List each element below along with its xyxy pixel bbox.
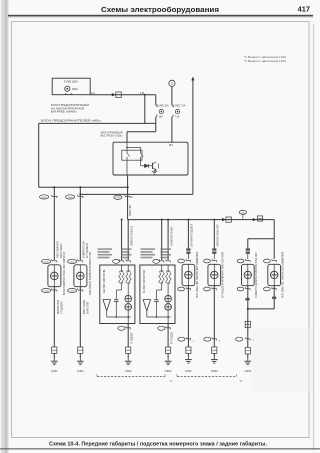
connector rect licence pair upper <box>245 321 250 327</box>
wire off-page feed right <box>192 79 194 195</box>
svg-text:НОМЕРНОГО ЗНА: НОМЕРНОГО ЗНА <box>82 241 85 258</box>
internal ground bus G553 <box>147 316 171 318</box>
svg-text:БЛОК ПРЕДОХРАНИТЕЛЕЙ «МВ»: БЛОК ПРЕДОХРАНИТЕЛЕЙ «МВ» <box>41 119 102 123</box>
connector dash B1 output <box>125 195 130 197</box>
connector on ground wire G401 <box>52 347 57 353</box>
svg-text:*2: *2 <box>218 341 221 343</box>
svg-text:Л/ЧЕР ГАБАРИТ ПОДСВЕТКА НОМЕРН: Л/ЧЕР ГАБАРИТ ПОДСВЕТКА НОМЕРНОГО ЗНА <box>89 252 92 295</box>
inline connector blob G501 <box>186 248 190 250</box>
svg-text:ЗНАКА СВЕТ: ЗНАКА СВЕТ <box>129 204 132 216</box>
inline connector blobs licence columns <box>245 298 249 300</box>
svg-text:Схема 10-4. Передние габариты: Схема 10-4. Передние габариты / подсветк… <box>49 440 268 447</box>
svg-text:B1: B1 <box>169 143 173 147</box>
wire fuse 7.5A output <box>171 117 173 142</box>
lamp G503 <box>241 264 254 285</box>
svg-text:FUSE 7.5A: FUSE 7.5A <box>173 104 185 107</box>
connector C563 oval <box>114 195 122 199</box>
node junction front-right <box>79 186 81 188</box>
wire to ground G502 <box>213 286 215 347</box>
connector on ground wire G402 <box>78 347 83 353</box>
connector oval lower licence right <box>264 287 271 291</box>
wire to LED lamps G553 <box>167 283 169 295</box>
wire to LED lamps G552 <box>127 283 129 295</box>
header rule <box>8 15 313 17</box>
svg-text:РИТ ПОДСВЕ: РИТ ПОДСВЕ <box>171 332 173 344</box>
lamp G502 <box>208 264 221 285</box>
svg-text:БАРИТ ПОДСВЕ: БАРИТ ПОДСВЕ <box>83 300 86 314</box>
svg-text:Т ПОДСВЕТК: Т ПОДСВЕТК <box>62 301 64 314</box>
svg-text:G553: G553 <box>165 369 172 373</box>
wire MB row horizontal <box>39 122 156 124</box>
variant bracket 2 <box>177 376 237 378</box>
page bleed-through shadow <box>251 329 313 391</box>
diode D1 <box>145 164 149 168</box>
svg-text:МЕРНОГО ЗНАК: МЕРНОГО ЗНАК <box>57 299 60 314</box>
wire drop lamp G501 <box>187 220 189 249</box>
wire drop front lamp G402 <box>79 187 81 260</box>
wire fuse 10A output <box>155 117 157 132</box>
svg-text:7: 7 <box>83 197 85 199</box>
fuse 10A number circle <box>159 109 163 113</box>
svg-text:НОМЕРНОГО ЗНАКА С: НОМЕРНОГО ЗНАКА С <box>170 226 173 246</box>
wire unit output G553 <box>167 317 169 324</box>
svg-text:АКА СВЕТ ЛАМП КРС/БЕ: АКА СВЕТ ЛАМП КРС/БЕ <box>103 269 106 293</box>
LED lamp upper G552 <box>125 295 132 302</box>
svg-text:ИТ ПОДСВЕТ: ИТ ПОДСВЕТ <box>131 332 133 344</box>
svg-text:7: 7 <box>57 197 59 199</box>
connector C405 oval upper <box>68 259 77 263</box>
connector ovals rear LED unit G552 <box>113 260 120 264</box>
svg-text:16: 16 <box>131 197 134 199</box>
ground G401 <box>53 358 55 361</box>
connector oval upper G501 <box>178 259 185 263</box>
svg-text:G501: G501 <box>185 369 192 373</box>
svg-text:ВЕТКА НОМЕРНОГО ЗНАКА СВЕТ ЛАМ: ВЕТКА НОМЕРНОГО ЗНАКА СВЕТ ЛАМП КРС/Б <box>63 252 66 295</box>
multiplex control unit B1 <box>113 142 188 175</box>
merge wires licence lamps <box>247 286 249 347</box>
connector on ground wire G502 <box>212 347 217 353</box>
wire left riser to bus <box>38 123 40 187</box>
svg-text:1-A: 1-A <box>91 91 95 95</box>
svg-text:G502: G502 <box>211 369 218 373</box>
inline connector C on MAIN feed <box>112 93 115 96</box>
connector oval licence pair <box>236 337 243 341</box>
connector C406 oval <box>40 195 49 199</box>
ground inside B1 <box>153 170 155 171</box>
wire rear-right lateral <box>248 238 274 240</box>
svg-text:FUSE 10A: FUSE 10A <box>157 104 169 107</box>
connector C562 oval above bus <box>239 210 246 214</box>
connector dash front-right wire <box>78 195 83 197</box>
connector oval mid G501 <box>178 337 185 341</box>
svg-text:РИТ ПОДСВЕТКА: РИТ ПОДСВЕТКА <box>86 243 89 258</box>
node rear bus junctions <box>121 219 123 221</box>
connector oval below unit G553 <box>158 326 165 330</box>
svg-text:C406: C406 <box>42 197 48 199</box>
bus front lamps lower <box>80 193 193 195</box>
fuse 7.5A number circle <box>175 109 179 113</box>
fuse 10A break <box>156 105 157 107</box>
LED branch resistors G552 <box>121 265 123 271</box>
wire drops rear LED unit G552 <box>121 220 123 260</box>
wire to ground G402 <box>79 287 81 347</box>
wire branch down to MB row <box>144 95 146 124</box>
connector 30A supply <box>169 80 175 86</box>
wire jog into multiplex input <box>127 131 156 133</box>
connector oval lower G501 <box>178 287 185 291</box>
svg-text:БАТАРЕЕ «MAIN»: БАТАРЕЕ «MAIN» <box>51 110 78 114</box>
svg-text:C405: C405 <box>70 290 76 292</box>
internal ground bus G552 <box>107 316 131 318</box>
wire drop front lamp G401 <box>53 187 55 260</box>
node junction front-left <box>53 186 55 188</box>
svg-text:FUSE 100A: FUSE 100A <box>64 80 78 84</box>
connector dash front-left wire <box>52 195 57 197</box>
ground G553 <box>167 358 169 361</box>
svg-text:30: 30 <box>171 83 174 85</box>
connector oval upper G502 <box>204 259 211 263</box>
wire rear-right corner drop <box>273 220 275 239</box>
wire unit output G552 <box>127 317 129 324</box>
fuse symbol 100A <box>65 86 70 91</box>
svg-text:G552: G552 <box>125 369 132 373</box>
header text rear LED unit G553 <box>141 248 156 250</box>
svg-text:КА СВЕТ ЛАМП КРС/БЕЛ: КА СВЕТ ЛАМП КРС/БЕЛ <box>143 269 146 293</box>
relay drive wire <box>140 160 142 166</box>
svg-text:ЗНАКА СВЕТ: ЗНАКА СВЕТ <box>87 301 90 314</box>
fuse hooks on MAIN box <box>65 93 68 96</box>
connector oval mid G502 <box>204 337 211 341</box>
svg-text:НОГО ЗНАКА СВЕТ ЛАМП КРС/БЕЛ З: НОГО ЗНАКА СВЕТ ЛАМП КРС/БЕЛ ЗАДНИЙ ПРАВ <box>282 252 285 298</box>
ground G552 <box>127 358 129 361</box>
svg-text:C405: C405 <box>68 197 74 199</box>
wire MAIN feed horizontal <box>90 94 156 96</box>
licence lamp right column <box>264 259 271 263</box>
inline connector blob G502 <box>212 248 216 250</box>
capacitor branch G552 <box>121 283 123 290</box>
svg-text:MULTIPLEX «ЛСВ»: MULTIPLEX «ЛСВ» <box>101 134 124 138</box>
relay contact right <box>140 147 142 153</box>
connector C406 oval upper <box>42 259 51 263</box>
lamp G501 <box>182 264 195 285</box>
connector oval below unit G552 <box>118 326 125 330</box>
svg-text:1-B: 1-B <box>140 91 144 95</box>
svg-text:Схемы электрооборудования: Схемы электрооборудования <box>101 6 219 14</box>
sensor triangle G552 <box>103 300 110 311</box>
svg-text:*1: *1 <box>170 379 173 383</box>
svg-text:100A: 100A <box>72 87 78 91</box>
wire drop licence lamp left <box>247 239 249 249</box>
svg-text:ЕР ГАБАРИТ ПОДСВЕТК: ЕР ГАБАРИТ ПОДСВЕТК <box>191 223 194 246</box>
svg-text:10A: 10A <box>159 116 164 119</box>
ground G502 <box>213 356 215 359</box>
bus parking lights upper <box>39 186 128 188</box>
svg-text:/ЧЕР ГАБАРИТ П: /ЧЕР ГАБАРИТ П <box>56 241 59 258</box>
svg-text:7.5A: 7.5A <box>175 116 180 119</box>
sensor triangle G553 <box>143 300 150 311</box>
wire B1 output <box>126 160 128 175</box>
svg-text:НОГО ЗНАКА СВЕТ ЛАМП КРС/БЕЛ З: НОГО ЗНАКА СВЕТ ЛАМП КРС/БЕЛ ЗАДНИЙ ПРАВ <box>196 252 199 298</box>
wire to ground G501 <box>187 286 189 347</box>
connector rect licence pair lower <box>245 348 250 354</box>
LED branch resistors G553 <box>161 265 163 271</box>
svg-text:C406: C406 <box>44 290 50 292</box>
battery fuse box MAIN <box>52 78 90 95</box>
svg-text:*2: *2 <box>192 341 195 343</box>
svg-text:Р ГАБАРИТ ПОДСВЕТКА НОМЕРНОГО: Р ГАБАРИТ ПОДСВЕТКА НОМЕРНОГО ЗНАКА СВЕТ <box>255 252 258 298</box>
fuse 7.5A break <box>172 105 173 107</box>
svg-text:РИТ ПОДСВЕТКА НОМЕРНОГО ЗНАКА: РИТ ПОДСВЕТКА НОМЕРНОГО ЗНАКА СВЕТ ЛАМП <box>222 252 225 298</box>
capacitor branch G553 <box>161 283 163 290</box>
ground G503 <box>247 358 249 361</box>
svg-text:C563: C563 <box>115 197 121 199</box>
svg-text:G402: G402 <box>77 369 84 373</box>
front position lamp front-right <box>74 265 87 287</box>
svg-text:*2: *2 <box>240 379 243 383</box>
connector on ground wire G553 <box>166 347 171 353</box>
connector oval lower G401 <box>42 288 51 292</box>
svg-text:G503: G503 <box>245 369 252 373</box>
ground G501 <box>187 356 189 359</box>
connector oval upper G503 <box>237 259 244 263</box>
svg-text:РНОГО ЗНАКА С: РНОГО ЗНАКА С <box>60 243 63 258</box>
caption rule <box>0 448 320 449</box>
wire to ground G401 <box>53 287 55 347</box>
inline connector on rear bus 2 <box>258 216 263 221</box>
svg-text:C405: C405 <box>70 261 76 263</box>
rear LED lamp unit G552 <box>100 265 135 324</box>
svg-text:417: 417 <box>298 5 310 14</box>
relay contact left <box>126 142 128 150</box>
connector on ground wire G501 <box>186 347 191 353</box>
transistor Q1 <box>148 165 152 167</box>
wire drop lamp G502 <box>213 220 215 249</box>
header text rear LED unit G552 <box>98 248 113 250</box>
connector oval lower G503 <box>237 287 244 291</box>
inline connector on rear bus 1 <box>222 218 225 221</box>
LED lamp lower G553 <box>165 304 172 311</box>
wire B1 output down <box>127 175 129 220</box>
wire drops rear LED unit G553 <box>161 220 163 260</box>
connector C405 oval <box>66 195 75 199</box>
connector oval lower G502 <box>204 287 211 291</box>
node junction B1 output <box>127 186 129 188</box>
svg-text:*2 Модели с двигателем L15A: *2 Модели с двигателем L15A <box>244 59 286 63</box>
wire from connector 30A <box>171 86 173 105</box>
inline connector blob G503 <box>246 248 250 250</box>
rear LED lamp unit G553 <box>140 265 175 324</box>
svg-text:C406: C406 <box>44 261 50 263</box>
connector on ground wire G552 <box>126 347 131 353</box>
svg-text:ОМЕРНОГО ЗНАКА СВ: ОМЕРНОГО ЗНАКА СВ <box>130 226 133 246</box>
connector oval lower G402 <box>68 288 77 292</box>
ground G402 <box>79 358 81 361</box>
variant bracket 1 <box>97 376 165 378</box>
LED lamp lower G552 <box>125 304 132 311</box>
svg-text:G401: G401 <box>51 369 58 373</box>
wire fused drop left <box>155 95 157 106</box>
front position lamp front-left <box>48 265 61 287</box>
bus rear lamps <box>128 219 275 221</box>
LED lamp upper G553 <box>165 295 172 302</box>
svg-text:ОМЕРНОГО ЗНАКА СВЕТ: ОМЕРНОГО ЗНАКА СВЕТ <box>216 224 219 247</box>
wire drop licence lamp right <box>273 239 275 259</box>
connector ovals rear LED unit G553 <box>153 260 160 264</box>
relay coil box inside B1 <box>122 150 142 160</box>
